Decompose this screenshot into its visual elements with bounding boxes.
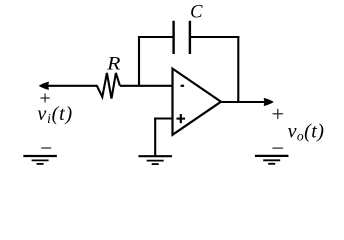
wire: non-inverting input horizontal segment <box>154 117 172 119</box>
label + (v_i positive terminal) <box>40 94 49 103</box>
label - (v_i negative terminal) <box>41 147 51 149</box>
wire: feedback top to capacitor left plate <box>138 36 174 38</box>
wire: input lead from v_i arrow to resistor <box>46 85 98 87</box>
svg-text:C: C <box>190 3 203 23</box>
output arrow (v_o reference direction, pointing right) <box>264 98 273 105</box>
wire: resistor to op-amp inverting input <box>120 85 173 87</box>
svg-text:vi(t): vi(t) <box>37 103 73 126</box>
wire: capacitor right plate to output riser <box>190 36 239 38</box>
capacitor C right plate <box>189 21 191 54</box>
ground: output reference <box>255 156 289 164</box>
op-amp inverting input marker (-) <box>181 85 185 87</box>
wire: non-inverting input down to ground <box>154 117 156 156</box>
wire: op-amp output to v_o arrow <box>221 101 266 103</box>
capacitor C left plate <box>172 21 174 54</box>
op-amp non-inverting input marker (+) <box>177 114 186 123</box>
svg-text:vo(t): vo(t) <box>288 120 325 143</box>
wire: feedback riser right (down to output node) <box>237 36 239 102</box>
op-amp U1 <box>173 69 222 135</box>
svg-text:R: R <box>106 54 121 74</box>
ground: input source reference <box>23 156 57 164</box>
label + (v_o positive terminal) <box>273 109 284 119</box>
wire: feedback riser left (inverting node up to capacitor) <box>138 36 140 87</box>
ground: op-amp non-inverting input <box>138 156 172 164</box>
label - (v_o negative terminal) <box>272 147 283 149</box>
source arrow (v_i reference direction, pointing left) <box>39 82 48 89</box>
resistor R <box>97 73 120 99</box>
